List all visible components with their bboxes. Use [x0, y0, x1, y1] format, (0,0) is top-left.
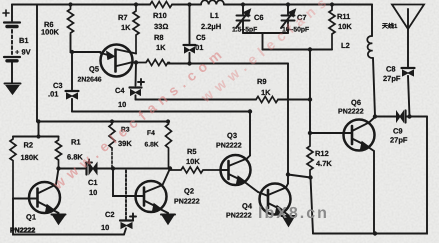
capacitor C3 .01 — [71, 52, 73, 90]
svg-text:C8: C8 — [386, 65, 396, 74]
junction R3 top — [110, 119, 114, 123]
svg-text:R12: R12 — [315, 149, 329, 158]
wire line B1 from C3 to Q3 collector node — [72, 111, 250, 113]
svg-text:PN2222: PN2222 — [174, 198, 200, 206]
junction R7 top on +V rail — [134, 2, 138, 6]
junction C3 tap — [70, 50, 74, 54]
wire R8 to C5 to x288 — [168, 63, 288, 65]
svg-text:L2: L2 — [341, 41, 350, 50]
ground Q2 — [161, 214, 175, 216]
battery B1 — [11, 5, 13, 22]
svg-text:C9: C9 — [393, 127, 403, 136]
svg-text:33Ω: 33Ω — [154, 22, 168, 31]
ground below B1 — [5, 83, 21, 85]
svg-text:C2: C2 — [105, 210, 115, 219]
svg-text:10: 10 — [89, 188, 97, 197]
resistor R4 6.8K — [166, 122, 172, 169]
svg-text:C5: C5 — [196, 33, 206, 42]
plus sign at battery — [3, 10, 9, 16]
node Q3 collector on line B — [248, 109, 252, 113]
junction R6 top on +V rail — [68, 2, 72, 6]
svg-text:10: 10 — [118, 100, 126, 109]
transistor Q5 2N2646 — [101, 45, 133, 77]
svg-text:.01: .01 — [193, 43, 203, 52]
capacitor C5 .01 — [189, 5, 191, 44]
ground Q4 — [282, 215, 296, 217]
node tank line to R9/R12 drop — [308, 47, 312, 51]
svg-text:Q5: Q5 — [89, 65, 99, 74]
svg-text:R1: R1 — [71, 138, 81, 147]
svg-text:2.2µH: 2.2µH — [201, 22, 221, 31]
junction R4 top — [166, 119, 170, 123]
node Q5 base2 / C4 / R8 — [134, 60, 138, 64]
junction C7 top on +V rail — [286, 2, 290, 6]
resistor R2 180K — [10, 137, 16, 199]
capacitor C8 27pF — [407, 29, 409, 67]
svg-text:Q1: Q1 — [26, 213, 36, 222]
svg-text:R10: R10 — [153, 11, 167, 20]
wire bottom right rail — [313, 117, 427, 234]
svg-text:100K: 100K — [41, 28, 60, 37]
junction C6 top on +V rail — [241, 2, 245, 6]
node C1 / R3 / Q2 base — [111, 166, 115, 170]
svg-text:L1: L1 — [210, 11, 219, 20]
antenna — [392, 5, 424, 30]
svg-text:PN2222: PN2222 — [216, 142, 242, 150]
node C5 bottom — [187, 61, 191, 65]
transistor Q6 PN2222 — [344, 120, 375, 151]
wire Q3 collector drop — [249, 112, 251, 156]
resistor R8 1K — [136, 60, 169, 66]
svg-text:C4: C4 — [115, 86, 125, 95]
variable capacitor C6 — [242, 5, 244, 15]
svg-text:R5: R5 — [187, 147, 197, 156]
svg-text:1K: 1K — [156, 43, 166, 52]
node L2 / Q6 collector / C9 — [373, 114, 377, 118]
resistor R11 10K — [329, 5, 335, 50]
wire down to bottom rail — [311, 178, 314, 234]
wire drop to R2 R1 rail — [13, 122, 59, 137]
svg-text:PN2222: PN2222 — [10, 228, 35, 235]
node Q2 collector / R4 / R5 — [168, 166, 172, 170]
svg-text:Q2: Q2 — [184, 187, 194, 196]
svg-text:天线1: 天线1 — [382, 22, 398, 30]
svg-text:10K: 10K — [186, 157, 200, 166]
junction C5 top on +V rail — [187, 2, 191, 6]
capacitor C9 27pF — [404, 111, 406, 123]
svg-text:PN2222: PN2222 — [338, 108, 364, 116]
wire R12 bottom to Q4 collector — [288, 175, 311, 178]
svg-text:1.5–5pF: 1.5–5pF — [232, 27, 257, 34]
resistor R6 100K — [68, 5, 74, 36]
svg-text:R9: R9 — [257, 77, 267, 86]
variable capacitor C7 — [287, 5, 289, 15]
svg-text:2N2646: 2N2646 — [78, 77, 102, 84]
transistor Q4 PN2222 — [260, 184, 291, 215]
svg-text:R2: R2 — [24, 141, 34, 150]
wire line A from C4 to R9 to R12 node — [136, 99, 311, 101]
wire C1 node down to Q2 base — [113, 169, 144, 197]
svg-text:10: 10 — [101, 223, 109, 232]
resistor R12 4.7K — [307, 133, 313, 178]
svg-text:27pF: 27pF — [383, 74, 401, 83]
resistor R9 1K — [256, 97, 278, 103]
svg-text:R8: R8 — [154, 33, 164, 42]
svg-text:F4: F4 — [147, 130, 155, 137]
node C8 bottom — [407, 114, 411, 118]
wire y49 line to R11 — [263, 49, 333, 51]
svg-text:C1: C1 — [88, 178, 98, 187]
dashed wire to C2 — [125, 171, 127, 220]
wire R6 to Q5 emitter — [71, 35, 101, 52]
wire tank tie line — [243, 32, 288, 34]
svg-text:Q6: Q6 — [351, 98, 361, 107]
capacitor C1 10 — [85, 163, 87, 175]
svg-text:Q4: Q4 — [242, 202, 253, 211]
wire tie drop to y49 line — [262, 33, 264, 50]
svg-text:180K: 180K — [21, 153, 40, 162]
node Q6 base / R12 top — [308, 131, 312, 135]
svg-text:6.8K: 6.8K — [145, 142, 159, 149]
svg-text:R7: R7 — [118, 13, 128, 22]
svg-text:10K: 10K — [338, 22, 352, 31]
resistor R10 33ohm — [150, 2, 172, 8]
svg-text:Q3: Q3 — [227, 131, 237, 140]
ground Q1 — [52, 214, 66, 216]
wire top rail — [12, 4, 372, 6]
transistor Q2 PN2222 — [136, 181, 167, 212]
svg-text:PN2222: PN2222 — [226, 212, 252, 220]
capacitor C4 10 — [135, 63, 138, 86]
svg-text:R11: R11 — [337, 12, 350, 21]
resistor R7 1K — [133, 5, 139, 54]
wire node line y168 — [59, 168, 171, 170]
svg-text:1K: 1K — [261, 88, 271, 97]
svg-text:27pF: 27pF — [390, 136, 408, 145]
inductor L2 — [371, 5, 373, 37]
inductor L1 2.2uH — [201, 0, 224, 4]
node R12 bottom — [308, 175, 312, 179]
wire Q4 collector vertical — [287, 64, 289, 184]
svg-text:lbX8.cn: lbX8.cn — [258, 205, 329, 222]
wire Q6 base — [310, 132, 352, 134]
svg-text:4.7K: 4.7K — [316, 159, 332, 168]
junction audio +V rail corner — [36, 119, 40, 123]
capacitor C2 10 — [120, 219, 133, 221]
wire +V drop x37 — [36, 5, 38, 122]
wire +V audio rail — [37, 121, 168, 123]
wire left edge to bottom bus — [13, 199, 124, 235]
wire C9 right leg — [406, 116, 428, 118]
svg-text:C6: C6 — [254, 13, 264, 22]
resistor R1 6.8K — [56, 137, 62, 169]
node Q6 emitter on bottom rail — [373, 231, 377, 235]
junction R2 R1 feed — [36, 134, 40, 138]
node R9 right — [308, 97, 312, 101]
node Q4 collector branch — [286, 172, 290, 176]
resistor R3 39K — [109, 121, 115, 149]
resistor R5 10K — [170, 167, 221, 173]
transistor Q3 PN2222 — [221, 155, 251, 185]
transistor Q1 PN2222 — [29, 182, 60, 213]
svg-text:B1: B1 — [19, 36, 29, 45]
svg-text:+ 9V: + 9V — [15, 48, 31, 57]
wire R9/R12 node vertical x310 — [309, 50, 311, 134]
junction R11 top on +V rail — [330, 2, 334, 6]
svg-text:.01: .01 — [48, 90, 58, 99]
svg-text:1K: 1K — [121, 23, 131, 32]
node Q1 collector / R1 / C1 — [56, 166, 60, 170]
